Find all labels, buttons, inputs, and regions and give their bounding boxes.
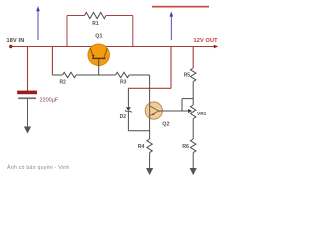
resistor R6: [191, 139, 196, 153]
svg-text:R1: R1: [92, 21, 99, 27]
wire R5 to VR1 top: [192, 82, 194, 105]
svg-text:Q2: Q2: [162, 121, 169, 127]
resistor R3: [116, 72, 150, 77]
wire red feedback vertical from rail: [170, 47, 172, 89]
wire main rail: [11, 46, 215, 48]
wire base node to R3: [99, 74, 116, 76]
wire R6 to ground: [192, 153, 194, 169]
node 18V IN terminal dot: [9, 45, 12, 48]
wire Q2 base to VR1 wiper: [158, 110, 188, 112]
top red bar: [152, 6, 209, 8]
wire Q2 emitter down: [149, 120, 151, 140]
potentiometer VR1: [191, 105, 196, 119]
wire R1 left drop: [66, 16, 68, 47]
svg-text:D2: D2: [120, 114, 127, 120]
resistor R2: [52, 72, 98, 77]
node 12V OUT terminal arrow: [214, 45, 218, 48]
svg-text:VR1: VR1: [197, 111, 207, 117]
svg-text:18V IN: 18V IN: [7, 38, 25, 44]
ground (capacitor): [24, 127, 31, 134]
blue arrow left: [36, 6, 40, 40]
wire R4 to ground: [149, 153, 151, 169]
svg-text:2200µF: 2200µF: [40, 97, 59, 103]
VR1 wiper arrow: [188, 109, 192, 113]
wire red horizontal to D2 top: [128, 87, 171, 89]
blue arrow right: [170, 11, 174, 40]
wire D2 bottom to emitter: [128, 130, 149, 132]
capacitor C1 plates: [17, 91, 37, 95]
wire VR1 to R6: [192, 119, 194, 139]
diode D2 (zener): [125, 88, 131, 131]
wire capacitor branch: [27, 47, 29, 91]
svg-text:R2: R2: [60, 80, 67, 86]
svg-text:R4: R4: [138, 144, 145, 150]
ground (R4): [146, 168, 153, 175]
svg-text:12V OUT: 12V OUT: [194, 38, 219, 44]
transistor Q2: [145, 102, 162, 120]
ground (R6): [190, 168, 197, 175]
transistor Q1: [88, 44, 110, 75]
resistor R5: [191, 68, 196, 82]
svg-text:Ảnh có bản quyền - Vinh: Ảnh có bản quyền - Vinh: [7, 164, 70, 171]
svg-text:Q1: Q1: [95, 34, 102, 40]
wire capacitor to ground: [27, 99, 29, 127]
svg-text:R6: R6: [182, 144, 189, 150]
wire R3 down to Q2 collector: [149, 75, 151, 103]
svg-text:R3: R3: [120, 80, 127, 86]
wire R2 drop from rail: [51, 47, 53, 76]
svg-text:R5: R5: [184, 72, 191, 78]
wire wiper link L: [182, 99, 193, 111]
wire R5 drop from rail: [192, 47, 194, 69]
resistor R4: [147, 139, 152, 153]
resistor R1: [67, 12, 133, 18]
wire R1 right drop: [132, 16, 134, 47]
